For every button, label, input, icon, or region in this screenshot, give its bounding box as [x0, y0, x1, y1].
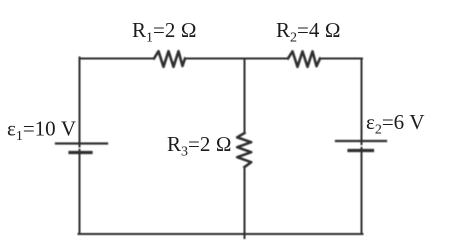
- svg-text:ε1=10 V: ε1=10 V: [7, 117, 76, 145]
- wire top-right segment: [320, 58, 362, 60]
- resistor R2: [288, 51, 320, 66]
- wire right vertical lower: [361, 148, 363, 234]
- wire middle vertical upper: [244, 59, 246, 133]
- wire top-left segment: [80, 58, 155, 59]
- battery E2 long plate: [336, 140, 386, 142]
- wire left vertical lower: [79, 150, 81, 234]
- wire middle vertical lower: [244, 167, 246, 238]
- resistor R3: [237, 133, 251, 167]
- wire top-middle segment: [185, 58, 288, 60]
- battery E2 short plate: [349, 149, 373, 152]
- svg-text:R3=2 Ω: R3=2 Ω: [167, 132, 232, 160]
- battery E1 long plate: [56, 142, 107, 144]
- battery E1 short plate: [70, 151, 91, 154]
- wire bottom: [79, 233, 363, 235]
- resistor R1: [154, 51, 185, 67]
- svg-text:R2=4 Ω: R2=4 Ω: [276, 18, 341, 46]
- svg-text:ε2=6 V: ε2=6 V: [366, 110, 425, 138]
- svg-text:R1=2 Ω: R1=2 Ω: [132, 18, 197, 46]
- wire left vertical upper: [79, 59, 81, 147]
- wire right vertical upper: [361, 59, 363, 145]
